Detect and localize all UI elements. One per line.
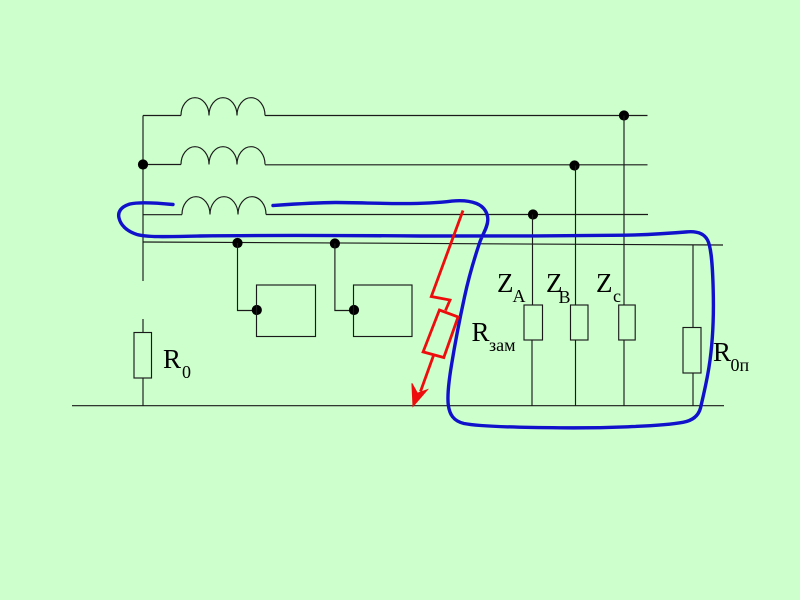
resistor R0p [683, 328, 701, 374]
svg-text:R: R [713, 337, 731, 367]
red fault arrow lower shaft [421, 356, 434, 392]
svg-text:0: 0 [182, 362, 191, 382]
svg-text:Z: Z [497, 268, 514, 298]
wire R0 stub [142, 319, 144, 333]
blue loop [119, 201, 714, 428]
red fault arrow upper shaft [431, 211, 463, 311]
junction dot N2 [330, 238, 340, 248]
wire phase B left lead [143, 164, 181, 166]
junction dot phase C tap [528, 209, 538, 219]
svg-text:A: A [513, 286, 526, 306]
junction dot phase A tap [619, 110, 629, 120]
svg-text:B: B [559, 287, 571, 307]
resistor R0 [134, 333, 152, 379]
red fault arrowhead [412, 383, 428, 406]
svg-text:R: R [163, 344, 181, 374]
wire R0p from neutral [692, 245, 694, 328]
wire Z_c drop [623, 116, 625, 306]
junction dot N1 [232, 238, 242, 248]
resistor Rzam red [423, 310, 458, 358]
wire Z_c to earth [623, 340, 625, 406]
wire phase C left lead [143, 214, 182, 216]
wire R0 to earth [142, 378, 144, 406]
resistor Z_B [571, 305, 589, 340]
bus vertical star point [142, 116, 144, 282]
wire Z_B to earth [575, 340, 577, 406]
svg-text:зам: зам [489, 335, 516, 355]
svg-text:Z: Z [596, 268, 613, 298]
wire phase A [265, 115, 648, 117]
wire N2 drop [335, 244, 352, 311]
junction dot box1 [252, 305, 262, 315]
winding phase C [182, 197, 266, 215]
resistor Z_c [619, 305, 636, 340]
wire neutral [143, 242, 723, 245]
winding phase A [181, 98, 265, 116]
box component 1 [257, 285, 316, 337]
svg-text:0п: 0п [731, 355, 750, 375]
wire R0p to earth [692, 373, 694, 406]
svg-text:c: c [613, 286, 621, 306]
wire phase A left lead [143, 115, 181, 117]
box component 2 [354, 285, 413, 337]
wire phase B [265, 164, 648, 166]
svg-text:R: R [472, 317, 490, 347]
wire Z_A drop [532, 215, 534, 306]
wire Z_A to earth [531, 340, 533, 406]
wire N1 drop [238, 243, 256, 311]
wire phase C [266, 214, 648, 216]
resistor Z_A [524, 305, 543, 340]
winding phase B [181, 147, 265, 165]
wire earth bottom [72, 405, 724, 407]
junction dot box2 [349, 305, 359, 315]
junction dot star point [138, 159, 148, 169]
wire Z_B drop [575, 166, 577, 306]
junction dot phase B tap [569, 160, 579, 170]
